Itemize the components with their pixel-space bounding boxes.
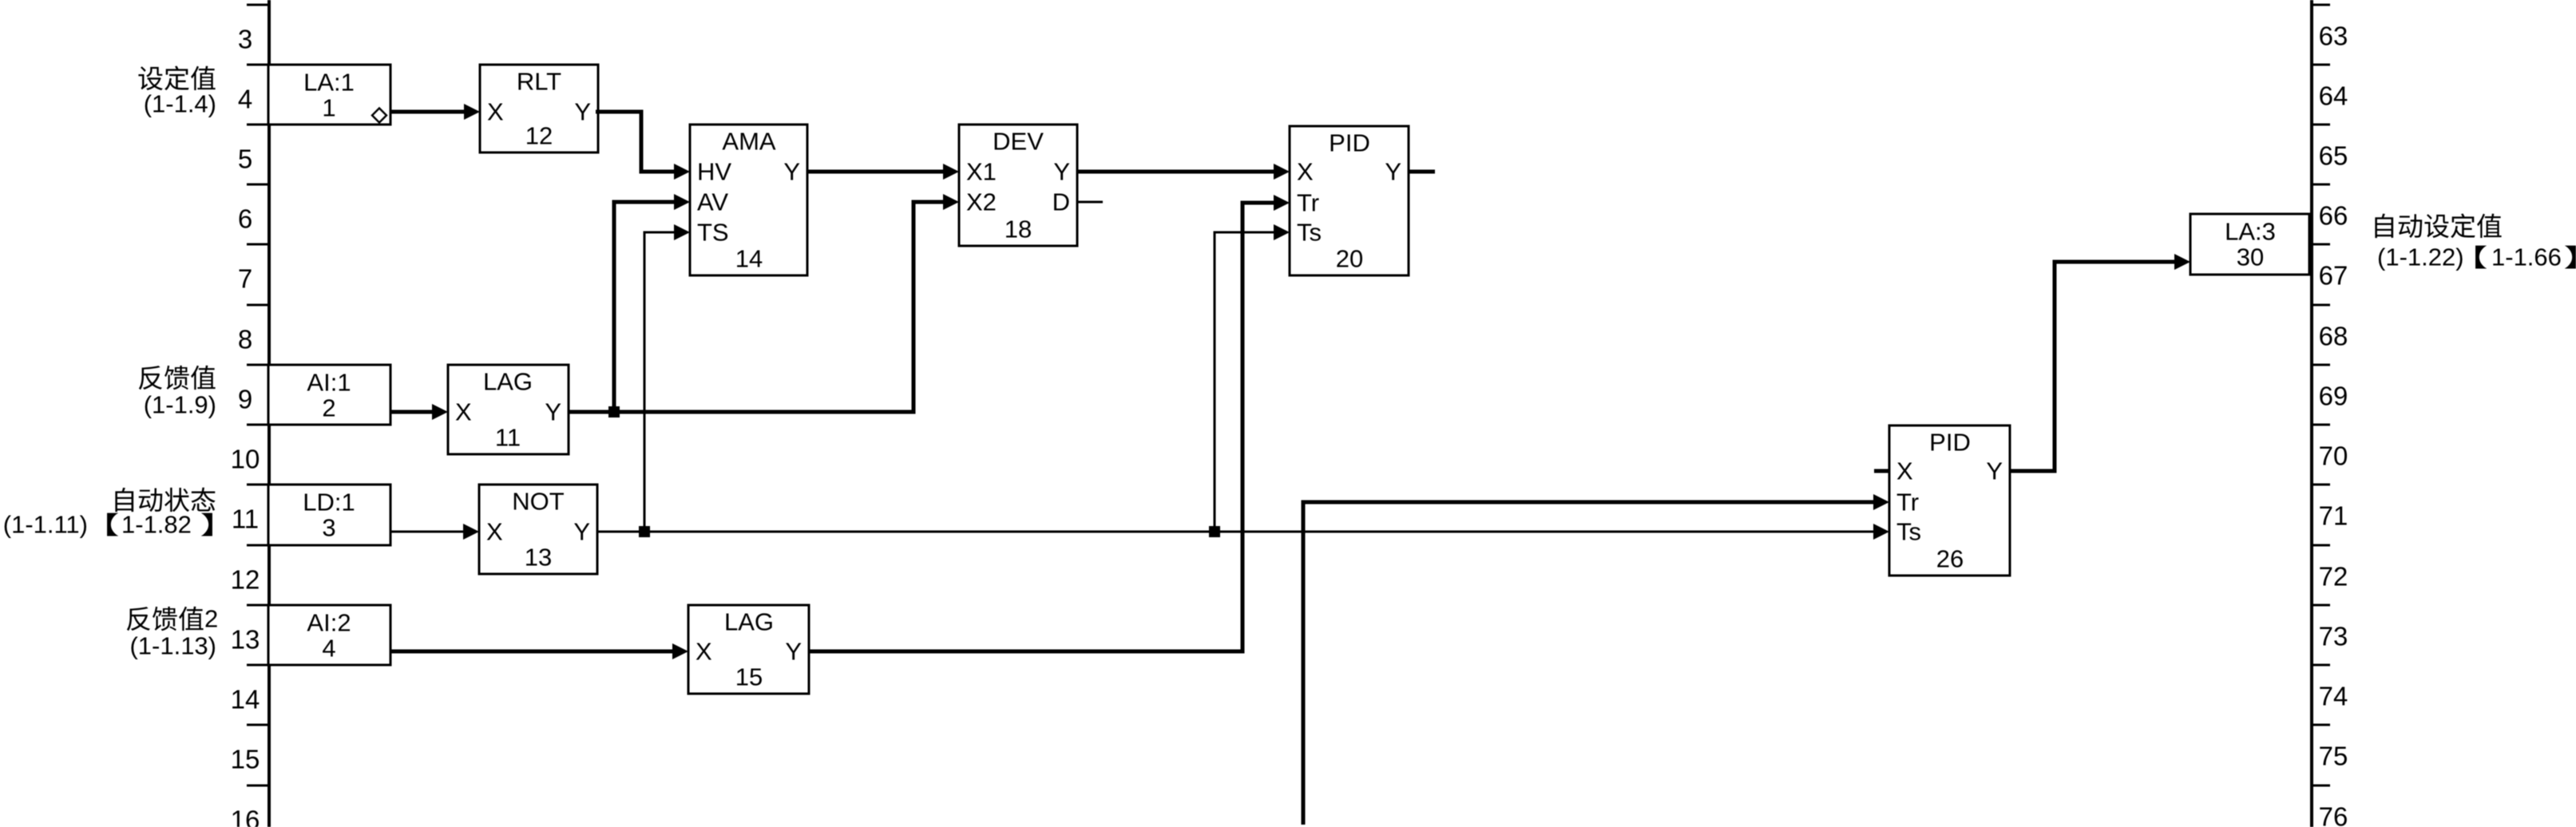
svg-text:LA:1: LA:1 [303, 69, 355, 97]
wire LA:1 out to RLT.X [390, 104, 480, 120]
svg-text:76: 76 [2319, 802, 2348, 827]
block RLT 12 [480, 65, 598, 152]
block DEV 18 [959, 125, 1077, 246]
block LA:1 input 1 [268, 65, 390, 125]
svg-text:X: X [1297, 158, 1314, 186]
block AMA 14 [690, 125, 807, 275]
svg-text:Y: Y [1385, 158, 1401, 186]
svg-text:X: X [455, 398, 472, 426]
svg-text:PID: PID [1329, 129, 1370, 157]
svg-text:Y: Y [783, 158, 800, 186]
svg-text:(1-1.13): (1-1.13) [129, 632, 216, 660]
svg-text:12: 12 [525, 122, 553, 150]
svg-text:Y: Y [1986, 457, 2003, 485]
svg-text:Y: Y [573, 518, 590, 546]
svg-text:11: 11 [232, 505, 259, 534]
svg-text:TS: TS [697, 219, 729, 247]
svg-text:10: 10 [231, 445, 260, 474]
wire NOT.Y riser to AMA.TS [644, 224, 690, 532]
svg-text:LA:3: LA:3 [2225, 218, 2276, 246]
svg-text:X: X [486, 518, 503, 546]
wire LAG11.Y to DEV.X2 [569, 194, 959, 412]
svg-text:LAG: LAG [724, 608, 774, 636]
wire AMA.Y to DEV.X1 [807, 164, 959, 180]
wire LD:1 out to NOT.X [390, 524, 479, 540]
left power rail [268, 0, 271, 827]
wire DEV.Y to PID20.X [1077, 164, 1290, 180]
svg-text:1: 1 [322, 94, 335, 122]
svg-text:14: 14 [735, 245, 763, 273]
svg-text:30: 30 [2237, 243, 2264, 271]
svg-text:NOT: NOT [512, 488, 565, 516]
svg-text:63: 63 [2319, 22, 2348, 51]
svg-text:4: 4 [322, 635, 335, 663]
svg-text:Y: Y [574, 98, 591, 126]
diamond marker on LA:1 output [372, 109, 386, 123]
svg-text:4: 4 [238, 85, 252, 114]
wire AI:1 out to LAG11.X [390, 404, 448, 420]
svg-text:20: 20 [1336, 245, 1363, 273]
svg-text:73: 73 [2319, 622, 2348, 651]
svg-text:Y: Y [545, 398, 561, 426]
svg-text:(1-1.4): (1-1.4) [144, 90, 216, 118]
label 反馈值2 (1-1.13) [127, 605, 218, 660]
block LAG 15 [688, 605, 809, 694]
svg-text:Y: Y [785, 638, 802, 666]
svg-text:AI:1: AI:1 [307, 369, 351, 397]
svg-text:16: 16 [231, 805, 260, 827]
svg-text:11: 11 [495, 424, 521, 452]
svg-text:68: 68 [2319, 322, 2348, 351]
stub DEV.D output [1077, 201, 1103, 204]
svg-text:64: 64 [2319, 81, 2348, 111]
svg-text:DEV: DEV [993, 128, 1044, 156]
label 自动状态 (1-1.11)【1-1.82】 [3, 488, 216, 539]
svg-text:X: X [696, 638, 712, 666]
right rail row numbers 63-76 [2319, 22, 2348, 827]
block AI:2 input 4 [268, 605, 390, 665]
label 设定值 (1-1.4) [138, 65, 216, 117]
svg-text:2: 2 [322, 394, 335, 422]
label 反馈值 (1-1.9) [139, 366, 216, 419]
svg-text:9: 9 [238, 385, 252, 414]
svg-text:AMA: AMA [722, 128, 776, 156]
svg-text:74: 74 [2319, 682, 2348, 711]
svg-text:RLT: RLT [517, 68, 561, 96]
right rail ticks [2312, 5, 2330, 785]
svg-text:14: 14 [231, 685, 260, 714]
block PID 26 [1889, 425, 2010, 576]
svg-text:6: 6 [238, 204, 252, 234]
block NOT 13 [479, 485, 597, 574]
svg-text:15: 15 [231, 745, 260, 774]
svg-text:26: 26 [1936, 545, 1964, 573]
svg-text:3: 3 [322, 514, 335, 542]
svg-text:1-1.82: 1-1.82 [121, 511, 192, 539]
block LA:3 output 30 [2190, 214, 2309, 275]
svg-text:7: 7 [238, 264, 252, 294]
svg-text:69: 69 [2319, 382, 2348, 411]
svg-text:X1: X1 [966, 158, 997, 186]
wire RLT.Y to AMA.HV [596, 112, 690, 180]
block PID 20 [1290, 126, 1409, 275]
svg-text:HV: HV [697, 158, 731, 186]
right power rail [2310, 0, 2313, 827]
svg-text:18: 18 [1005, 216, 1032, 243]
stub PID20.Y output [1409, 170, 1435, 174]
wire PID26.Y to LA:3 [2010, 254, 2190, 471]
svg-text:D: D [1052, 188, 1070, 216]
svg-text:15: 15 [735, 663, 763, 691]
svg-text:71: 71 [2319, 501, 2348, 531]
svg-text:X: X [487, 98, 504, 126]
svg-text:8: 8 [238, 325, 252, 354]
svg-text:72: 72 [2319, 562, 2348, 592]
wire junction to AMA.AV [614, 194, 690, 412]
svg-text:13: 13 [525, 544, 552, 572]
junction NOT.Y / PID20.Ts riser [1209, 526, 1220, 537]
svg-text:(1-1.11): (1-1.11) [3, 511, 88, 539]
svg-text:2: 2 [204, 605, 218, 633]
wire riser to PID20.Ts [1215, 224, 1290, 532]
svg-text:13: 13 [231, 625, 260, 655]
block LD:1 input 3 [268, 485, 390, 545]
svg-text:X: X [1896, 457, 1913, 485]
svg-text:(1-1.22): (1-1.22) [2377, 243, 2464, 271]
svg-text:LD:1: LD:1 [303, 489, 355, 516]
wire NOT.Y to PID26.Ts [597, 524, 1889, 540]
svg-text:65: 65 [2319, 141, 2348, 171]
stub PID26.X input [1874, 469, 1889, 473]
svg-text:Tr: Tr [1896, 489, 1919, 516]
svg-text:PID: PID [1929, 429, 1971, 457]
junction NOT.Y / TS riser [639, 526, 650, 537]
left rail ticks [247, 5, 269, 785]
junction LAG11.Y / AV riser [608, 406, 620, 417]
svg-text:75: 75 [2319, 742, 2348, 771]
svg-text:AI:2: AI:2 [307, 609, 351, 637]
svg-text:(1-1.9): (1-1.9) [144, 391, 216, 419]
svg-text:X2: X2 [966, 188, 997, 216]
left rail row numbers 3-16 [231, 25, 260, 827]
wire AI:2 out to LAG15.X [390, 643, 688, 659]
svg-text:70: 70 [2319, 441, 2348, 471]
wire LAG15.Y to PID20.Tr [809, 195, 1290, 651]
svg-text:Y: Y [1053, 158, 1070, 186]
svg-text:Ts: Ts [1297, 219, 1322, 247]
block LAG 11 [448, 365, 569, 454]
svg-text:1-1.66: 1-1.66 [2491, 243, 2562, 271]
svg-text:Tr: Tr [1297, 189, 1319, 217]
svg-text:5: 5 [238, 144, 252, 174]
svg-text:3: 3 [238, 25, 252, 54]
svg-text:AV: AV [697, 188, 728, 216]
block AI:1 input 2 [268, 365, 390, 425]
label 自动设定值 (1-1.22)【1-1.66】 [2375, 213, 2576, 271]
wire from bottom to PID26.Tr [1303, 494, 1889, 825]
svg-text:12: 12 [231, 565, 260, 595]
svg-text:LAG: LAG [483, 368, 533, 396]
svg-text:66: 66 [2319, 201, 2348, 231]
svg-text:67: 67 [2319, 261, 2348, 291]
svg-text:Ts: Ts [1896, 518, 1921, 546]
